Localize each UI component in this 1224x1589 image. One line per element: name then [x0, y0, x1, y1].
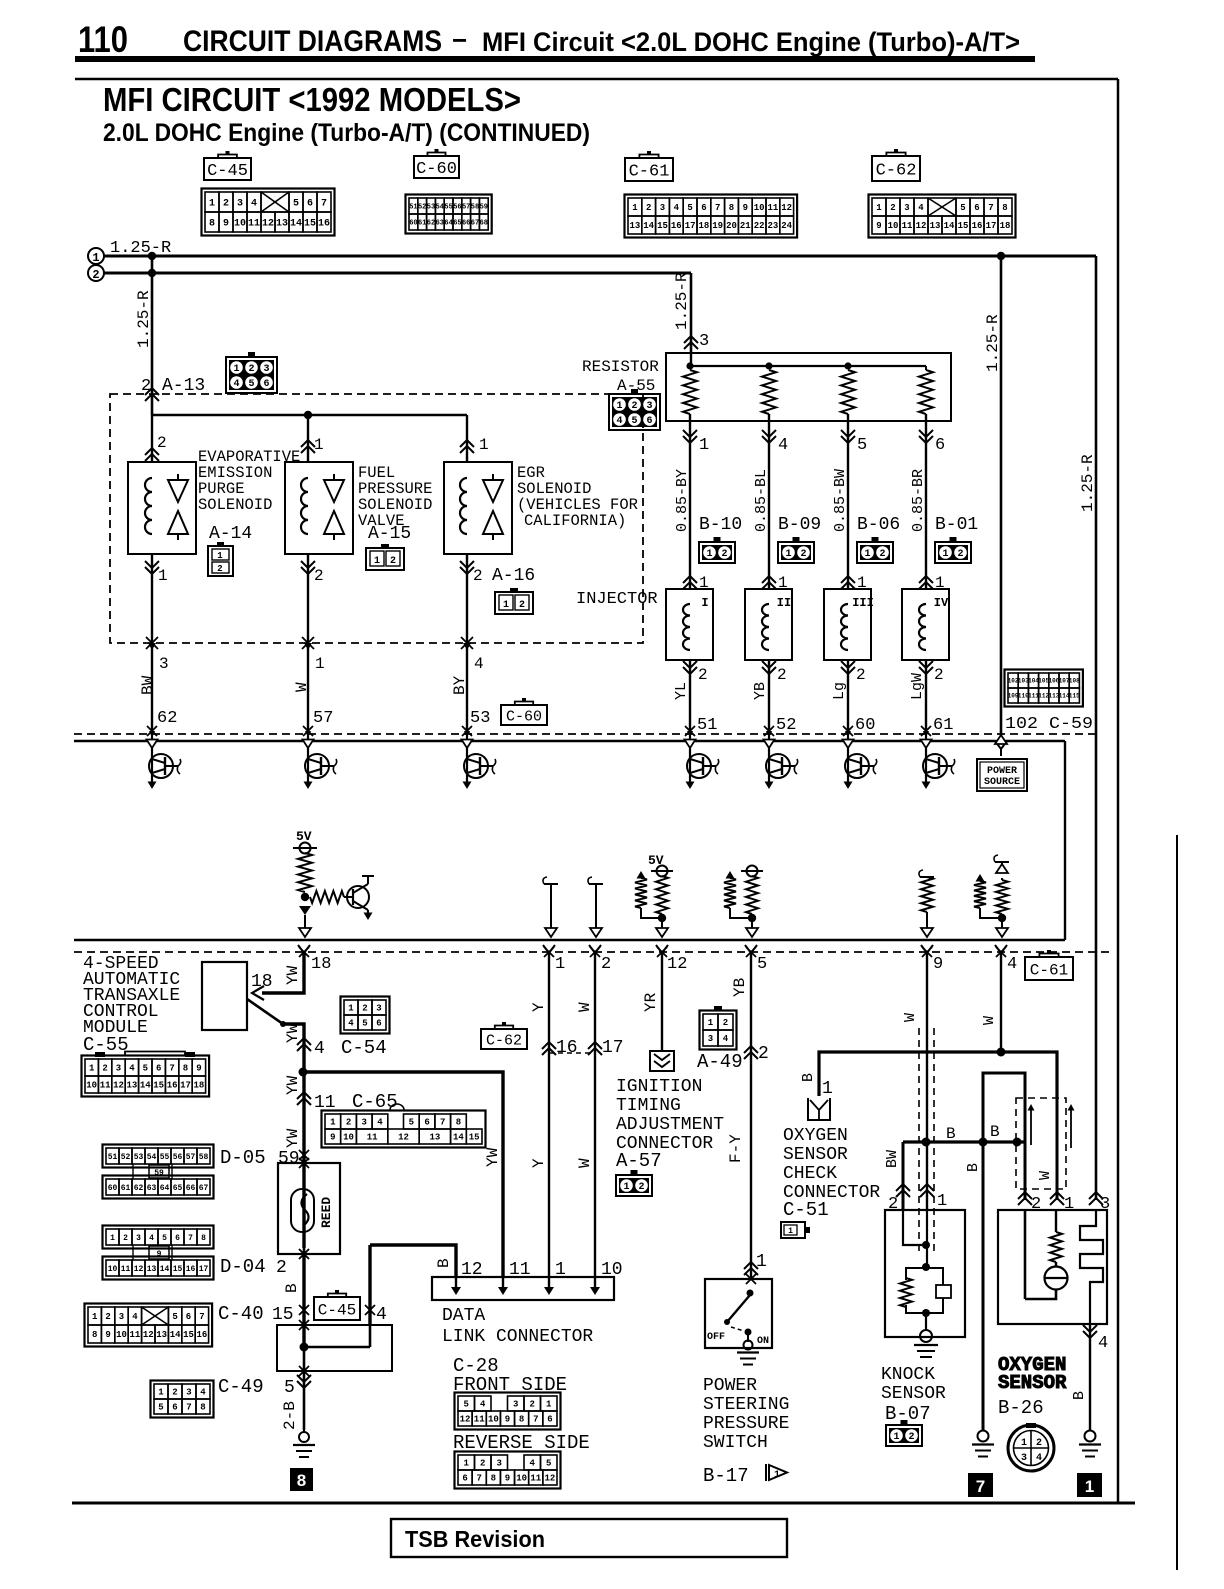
- connector label C-45 bottom: [314, 1290, 360, 1320]
- resistor internal pin 9: [919, 870, 934, 937]
- ECU box right edge: [1064, 741, 1066, 940]
- svg-text:24: 24: [781, 221, 792, 231]
- svg-text:4: 4: [251, 199, 257, 210]
- svg-text:1: 1: [893, 1432, 899, 1443]
- svg-text:8: 8: [1002, 203, 1007, 213]
- svg-text:4: 4: [1098, 1334, 1108, 1353]
- svg-text:B-07: B-07: [885, 1403, 931, 1425]
- svg-text:12: 12: [113, 1081, 124, 1091]
- svg-text:12: 12: [460, 1415, 471, 1425]
- svg-text:3: 3: [119, 1312, 124, 1322]
- svg-text:5: 5: [464, 1400, 469, 1410]
- svg-text:1: 1: [822, 1079, 833, 1099]
- diode node 18: [299, 906, 311, 924]
- svg-text:4: 4: [723, 1034, 729, 1044]
- switch contact chevron: [252, 986, 264, 1000]
- wire oxygen pin1 drop: [1056, 1097, 1059, 1200]
- resistor internal pin 5: [724, 871, 750, 918]
- junction box C-45: [277, 1325, 392, 1371]
- svg-text:B-17: B-17: [703, 1465, 749, 1487]
- wire A-15 top: [301, 415, 324, 462]
- wire label YB: [731, 978, 749, 997]
- svg-text:4: 4: [129, 1064, 135, 1074]
- svg-text:17: 17: [199, 1265, 209, 1274]
- svg-text:DATA: DATA: [442, 1306, 485, 1326]
- svg-text:5: 5: [631, 416, 637, 427]
- svg-text:2: 2: [698, 666, 708, 684]
- svg-text:POWER: POWER: [987, 766, 1017, 777]
- wire resistor output 1: [683, 414, 709, 589]
- svg-text:YW: YW: [284, 1023, 302, 1043]
- wire A-16 top: [460, 415, 489, 462]
- svg-text:18: 18: [193, 1081, 204, 1091]
- svg-text:2: 2: [276, 1258, 287, 1278]
- wire label W oxygen: [1037, 1171, 1054, 1180]
- svg-text:3: 3: [237, 199, 243, 210]
- wire label B earth: [965, 1163, 982, 1172]
- svg-text:1: 1: [479, 436, 489, 454]
- svg-text:TIMING: TIMING: [616, 1096, 681, 1116]
- wire knock to ground: [925, 1313, 927, 1331]
- injector 3 box: [824, 589, 874, 660]
- svg-text:4: 4: [376, 1305, 387, 1325]
- svg-text:2: 2: [1031, 1195, 1041, 1214]
- wire label YL: [673, 682, 690, 700]
- ECU pin 57 socket: [303, 726, 313, 748]
- svg-text:W: W: [576, 1158, 594, 1168]
- junction node 18: [301, 893, 309, 901]
- label A-49: [697, 1051, 743, 1073]
- svg-text:62: 62: [427, 220, 435, 228]
- ignition timing connector symbol: [650, 1051, 674, 1071]
- switch dashed throw: [731, 1327, 744, 1331]
- svg-text:4: 4: [132, 1312, 138, 1322]
- svg-text:2: 2: [856, 666, 866, 684]
- svg-text:IV: IV: [934, 596, 949, 610]
- svg-text:1: 1: [876, 203, 882, 213]
- svg-text:7: 7: [533, 1415, 538, 1425]
- svg-text:16: 16: [972, 221, 983, 231]
- ECU internal output pin 1: [543, 877, 558, 937]
- ECU bottom pin 1 mark: [543, 945, 555, 960]
- svg-text:3: 3: [904, 203, 909, 213]
- svg-text:YW: YW: [484, 1147, 502, 1167]
- svg-text:18: 18: [311, 955, 331, 974]
- svg-text:B: B: [1071, 1391, 1088, 1400]
- svg-text:7: 7: [321, 199, 327, 210]
- connector D-04 pin view: [103, 1226, 214, 1280]
- node 2 off-page circle: [88, 265, 104, 282]
- svg-text:2: 2: [638, 1182, 644, 1193]
- wire label BY: [451, 675, 469, 695]
- svg-text:I: I: [701, 596, 708, 610]
- wire left 1.25-R drop: [151, 256, 154, 415]
- svg-text:3: 3: [186, 1388, 191, 1398]
- svg-text:1: 1: [706, 549, 712, 560]
- svg-text:58: 58: [471, 204, 479, 212]
- svg-text:C-54: C-54: [341, 1037, 387, 1059]
- oxygen pin 1 mark: [1050, 1192, 1074, 1214]
- svg-text:10: 10: [343, 1133, 354, 1143]
- connector D-05 pin view: [103, 1145, 214, 1199]
- svg-text:1: 1: [546, 1400, 552, 1410]
- svg-text:F-Y: F-Y: [727, 1134, 745, 1163]
- resistor internal pin 12: [635, 871, 660, 918]
- switch contact ON: [745, 1329, 752, 1336]
- dashed boundary box solenoids: [110, 394, 643, 643]
- svg-text:2: 2: [721, 549, 727, 560]
- svg-text:54: 54: [147, 1153, 157, 1162]
- injector 4 coil: [919, 604, 926, 650]
- page number 110: [78, 19, 128, 60]
- injector 2 coil: [762, 604, 769, 650]
- resistor 5V pullup 18: [298, 853, 312, 892]
- svg-text:15: 15: [173, 1265, 183, 1274]
- svg-text:1: 1: [785, 549, 791, 560]
- svg-text:52: 52: [121, 1153, 131, 1162]
- resistor internal pin 4: [974, 874, 1000, 918]
- svg-text:YB: YB: [752, 682, 769, 700]
- resistor A-55 box: [666, 353, 951, 421]
- svg-text:11: 11: [767, 203, 778, 213]
- wire label 1.25-R C-59: [984, 314, 1002, 372]
- svg-text:1: 1: [217, 551, 223, 561]
- svg-text:8: 8: [297, 1471, 306, 1490]
- connector label C-45: [204, 151, 251, 181]
- svg-text:11: 11: [100, 1081, 111, 1091]
- pin 102 C-59 label: [1005, 715, 1093, 734]
- svg-text:1: 1: [616, 401, 622, 412]
- wire label B oxygen ground: [1071, 1391, 1088, 1400]
- OSCC pin 1 label: [822, 1079, 833, 1099]
- svg-text:60: 60: [409, 220, 417, 228]
- svg-text:2: 2: [758, 1044, 769, 1064]
- connector B-07 pin view: [886, 1420, 922, 1446]
- svg-text:11: 11: [121, 1265, 131, 1274]
- wire label 1.25-R resistor: [673, 272, 691, 330]
- wire ECU pin1 to data link: [547, 952, 549, 1277]
- pin 51 label: [697, 716, 717, 735]
- label DATA LINK CONNECTOR: [442, 1306, 593, 1347]
- svg-text:2: 2: [362, 1004, 367, 1014]
- svg-text:56: 56: [453, 204, 461, 212]
- connector label C-61 bottom: [1025, 950, 1073, 980]
- oxygen heater circle: [1045, 1267, 1069, 1290]
- wire C-59 power drop 1.25-R: [1000, 256, 1003, 741]
- connector A-14 pin view: [208, 542, 233, 576]
- connector C-55 pin view: [82, 1052, 210, 1097]
- svg-text:2: 2: [800, 549, 806, 560]
- connector label C-62 mid: [481, 1022, 527, 1049]
- svg-text:1: 1: [92, 1312, 98, 1322]
- svg-text:12: 12: [781, 203, 792, 213]
- label C-28 FRONT SIDE: [453, 1355, 567, 1396]
- junction B ground drop: [979, 1138, 988, 1147]
- oxygen sensing element: [1080, 1210, 1103, 1324]
- svg-text:0.85-BY: 0.85-BY: [674, 469, 691, 532]
- wire ECU pin5 down: [750, 952, 752, 1279]
- solenoid A-15 valve: [324, 474, 344, 540]
- internal transistor Q1: [344, 876, 374, 920]
- svg-text:14: 14: [453, 1133, 464, 1143]
- 5V label pin 12: [648, 853, 664, 868]
- svg-text:5: 5: [857, 436, 867, 455]
- connector C-40 pin view: [85, 1304, 213, 1347]
- wire label BW knock: [884, 1150, 901, 1168]
- svg-text:63: 63: [147, 1184, 157, 1193]
- 5V circle pin 12: [651, 866, 673, 877]
- label REVERSE SIDE: [453, 1432, 590, 1454]
- svg-text:6: 6: [186, 1312, 191, 1322]
- svg-text:OFF: OFF: [707, 1332, 725, 1343]
- svg-text:10: 10: [86, 1081, 97, 1091]
- label A-15: [368, 524, 411, 544]
- svg-text:13: 13: [429, 1133, 440, 1143]
- svg-text:2: 2: [123, 1234, 128, 1243]
- svg-text:14: 14: [140, 1081, 151, 1091]
- connector C-28 front view: [455, 1393, 561, 1430]
- label B-06: [857, 515, 900, 535]
- svg-text:61: 61: [418, 220, 426, 228]
- wire label B meter: [283, 1283, 301, 1293]
- svg-text:2: 2: [777, 666, 787, 684]
- svg-text:2: 2: [314, 567, 324, 585]
- wire label B OSCC: [800, 1073, 817, 1082]
- wire YW branch to data link pin 11: [303, 1072, 503, 1277]
- wire label Y 1: [530, 1002, 548, 1012]
- svg-text:2: 2: [723, 1018, 728, 1028]
- resistor R2: [762, 370, 776, 414]
- driver transistor at pin 62: [147, 740, 181, 790]
- svg-text:IGNITION: IGNITION: [616, 1077, 702, 1097]
- svg-text:0.85-BR: 0.85-BR: [910, 469, 927, 532]
- wire A-15 bottom: [301, 554, 324, 734]
- svg-text:1: 1: [632, 203, 638, 213]
- svg-text:12: 12: [134, 1265, 144, 1274]
- svg-text:8: 8: [519, 1415, 524, 1425]
- svg-text:1: 1: [503, 600, 509, 611]
- svg-text:3: 3: [159, 655, 169, 673]
- svg-text:2: 2: [890, 203, 895, 213]
- label OXYGEN SENSOR B-26: [998, 1354, 1067, 1419]
- svg-text:C-45: C-45: [318, 1301, 356, 1319]
- wire label W pin9: [902, 1013, 919, 1022]
- svg-text:9: 9: [223, 219, 229, 230]
- svg-text:1: 1: [699, 436, 709, 455]
- pin 3 mark resistor: [684, 332, 709, 351]
- svg-text:18: 18: [1000, 221, 1011, 231]
- wire bus1 1.25-R: [104, 255, 1096, 258]
- svg-text:C-40: C-40: [218, 1303, 264, 1325]
- pin 15 C-40 mark: [218, 1303, 309, 1325]
- svg-text:53: 53: [134, 1153, 144, 1162]
- svg-text:10: 10: [108, 1265, 118, 1274]
- svg-text:7: 7: [188, 1234, 193, 1243]
- svg-text:55: 55: [160, 1153, 170, 1162]
- svg-text:5: 5: [362, 1019, 367, 1029]
- svg-text:10: 10: [754, 203, 765, 213]
- svg-text:13: 13: [930, 221, 941, 231]
- ECU bottom pin 5 mark: [745, 945, 757, 960]
- svg-text:2: 2: [248, 364, 254, 375]
- svg-text:1: 1: [315, 655, 325, 673]
- connector B-06 pin view: [857, 537, 893, 563]
- svg-text:ON: ON: [757, 1336, 769, 1347]
- svg-text:17: 17: [602, 1038, 624, 1058]
- svg-text:5: 5: [162, 1234, 167, 1243]
- label POWER STEERING PRESSURE SWITCH: [703, 1376, 789, 1453]
- pin 18 label: [311, 955, 331, 974]
- svg-text:12: 12: [916, 221, 927, 231]
- label FUEL PRESSURE SOLENOID VALVE: [358, 464, 432, 530]
- svg-text:2: 2: [217, 564, 222, 574]
- oxygen shield dashed box: [1016, 1098, 1066, 1189]
- svg-text:1: 1: [788, 1227, 793, 1236]
- svg-text:15: 15: [657, 221, 668, 231]
- svg-text:W: W: [576, 1002, 594, 1012]
- svg-text:B: B: [283, 1283, 301, 1293]
- svg-text:CALIFORNIA): CALIFORNIA): [524, 512, 626, 530]
- svg-text:7: 7: [440, 1118, 445, 1128]
- svg-text:15: 15: [272, 1305, 294, 1325]
- connector A-16 pin view: [495, 588, 533, 614]
- svg-text:6: 6: [462, 1474, 467, 1484]
- svg-text:2: 2: [519, 600, 525, 611]
- connector B-26 round view: [1008, 1423, 1054, 1471]
- 5V supply circle: [293, 843, 317, 854]
- svg-text:2: 2: [223, 199, 229, 210]
- knock element rails: [906, 1268, 943, 1313]
- svg-text:1: 1: [158, 567, 168, 585]
- pin 62 label: [157, 709, 177, 728]
- power steering pressure switch box: [705, 1274, 772, 1348]
- connector A-55 pin view: [609, 389, 660, 430]
- ECU bottom pin 4 mark: [995, 945, 1007, 960]
- pin 57 label: [313, 709, 333, 728]
- svg-text:LgW: LgW: [909, 673, 926, 700]
- wire label B data link: [435, 1258, 453, 1268]
- wire label 1.25-R right: [1079, 454, 1097, 512]
- knock resistor: [900, 1278, 912, 1307]
- knock sensor box: [885, 1210, 965, 1337]
- svg-text:D-05: D-05: [220, 1147, 266, 1169]
- svg-text:6: 6: [701, 203, 706, 213]
- svg-text:13: 13: [147, 1265, 157, 1274]
- svg-text:65: 65: [173, 1184, 183, 1193]
- ground earth B: [972, 1431, 994, 1457]
- svg-text:B-10: B-10: [699, 515, 742, 535]
- wire resistor internal bus: [690, 353, 926, 366]
- svg-text:14: 14: [160, 1265, 170, 1274]
- ECU bottom pin 9 mark: [921, 945, 933, 960]
- label B-10: [699, 515, 742, 535]
- junction bus2/left drop: [148, 269, 156, 277]
- svg-text:1.25-R: 1.25-R: [1079, 454, 1097, 512]
- svg-text:1: 1: [623, 1182, 629, 1193]
- svg-text:BW: BW: [884, 1150, 901, 1168]
- svg-text:10: 10: [888, 221, 899, 231]
- svg-text:14: 14: [290, 219, 302, 230]
- svg-text:4: 4: [348, 1019, 354, 1029]
- ECU pin 102 socket: [995, 735, 1007, 756]
- svg-text:9: 9: [105, 1330, 110, 1340]
- svg-text:1: 1: [1064, 1195, 1074, 1214]
- svg-text:C-51: C-51: [783, 1199, 829, 1221]
- svg-text:17: 17: [685, 221, 696, 231]
- svg-text:3: 3: [646, 401, 652, 412]
- svg-text:5: 5: [158, 1403, 163, 1413]
- svg-text:1: 1: [555, 1260, 566, 1280]
- pin 59 D-05 mark: [220, 1147, 309, 1169]
- wire pin18 to switch: [262, 952, 304, 993]
- svg-text:62: 62: [134, 1184, 144, 1193]
- svg-text:2: 2: [102, 1064, 107, 1074]
- page edge line right: [1176, 835, 1178, 1570]
- connector boundary 16/17 dashed: [549, 1052, 595, 1054]
- svg-text:3: 3: [1021, 1453, 1027, 1464]
- svg-text:16: 16: [318, 219, 330, 230]
- svg-text:8: 8: [209, 219, 215, 230]
- svg-text:108: 108: [1069, 678, 1080, 685]
- wire label LgW: [909, 673, 926, 700]
- svg-text:58: 58: [199, 1153, 209, 1162]
- pin 11 C-65 mark: [297, 1091, 398, 1113]
- svg-text:17: 17: [180, 1081, 191, 1091]
- pin 9 label: [933, 955, 943, 974]
- svg-text:64: 64: [160, 1184, 170, 1193]
- svg-text:W: W: [1037, 1171, 1054, 1180]
- svg-text:−: −: [452, 25, 467, 55]
- driver transistor at pin 61: [921, 740, 955, 790]
- junction knock element top: [922, 1263, 930, 1271]
- svg-text:6: 6: [376, 1019, 381, 1029]
- connector label C-60 bottom: [501, 698, 547, 725]
- svg-text:4: 4: [233, 379, 239, 390]
- svg-text:68: 68: [480, 220, 488, 228]
- label B-01: [935, 515, 978, 535]
- label RESISTOR A-55: [582, 358, 659, 395]
- driver transistor at pin 60: [843, 740, 877, 790]
- shield arrow 1: [1028, 1104, 1035, 1145]
- svg-text:A-15: A-15: [368, 524, 411, 544]
- svg-text:2: 2: [888, 1195, 898, 1214]
- svg-text:A-49: A-49: [697, 1051, 743, 1073]
- pennant symbol B-17: [766, 1464, 787, 1481]
- data link pin 1 arrow: [544, 1260, 566, 1295]
- junction pin 12: [658, 914, 666, 922]
- svg-text:0.85-BL: 0.85-BL: [753, 469, 770, 532]
- svg-text:3: 3: [1100, 1195, 1110, 1214]
- svg-text:4: 4: [377, 1118, 383, 1128]
- svg-text:SOLENOID: SOLENOID: [198, 496, 272, 514]
- connector A-49 pin view: [700, 1006, 737, 1050]
- svg-text:BW: BW: [139, 675, 157, 695]
- wire label 0.85-BW: [832, 469, 849, 532]
- svg-text:MFI CIRCUIT <1992 MODELS>: MFI CIRCUIT <1992 MODELS>: [103, 81, 521, 118]
- svg-text:15: 15: [469, 1133, 480, 1143]
- label B-17: [703, 1465, 749, 1487]
- svg-text:6: 6: [175, 1234, 180, 1243]
- page ref 8 box: [290, 1468, 313, 1491]
- wire label 0.85-BL: [753, 469, 770, 532]
- svg-text:MFI Circuit <2.0L DOHC Engine: MFI Circuit <2.0L DOHC Engine (Turbo)-A/…: [482, 27, 1020, 57]
- svg-text:1: 1: [1085, 1477, 1094, 1496]
- TSB Revision box: [391, 1519, 787, 1557]
- ECU bottom pin 18 mark: [298, 945, 310, 960]
- oxygen ground staple: [983, 1073, 1025, 1200]
- injector 2 pin 1 mark: [762, 574, 788, 592]
- wire label F-Y: [727, 1134, 745, 1163]
